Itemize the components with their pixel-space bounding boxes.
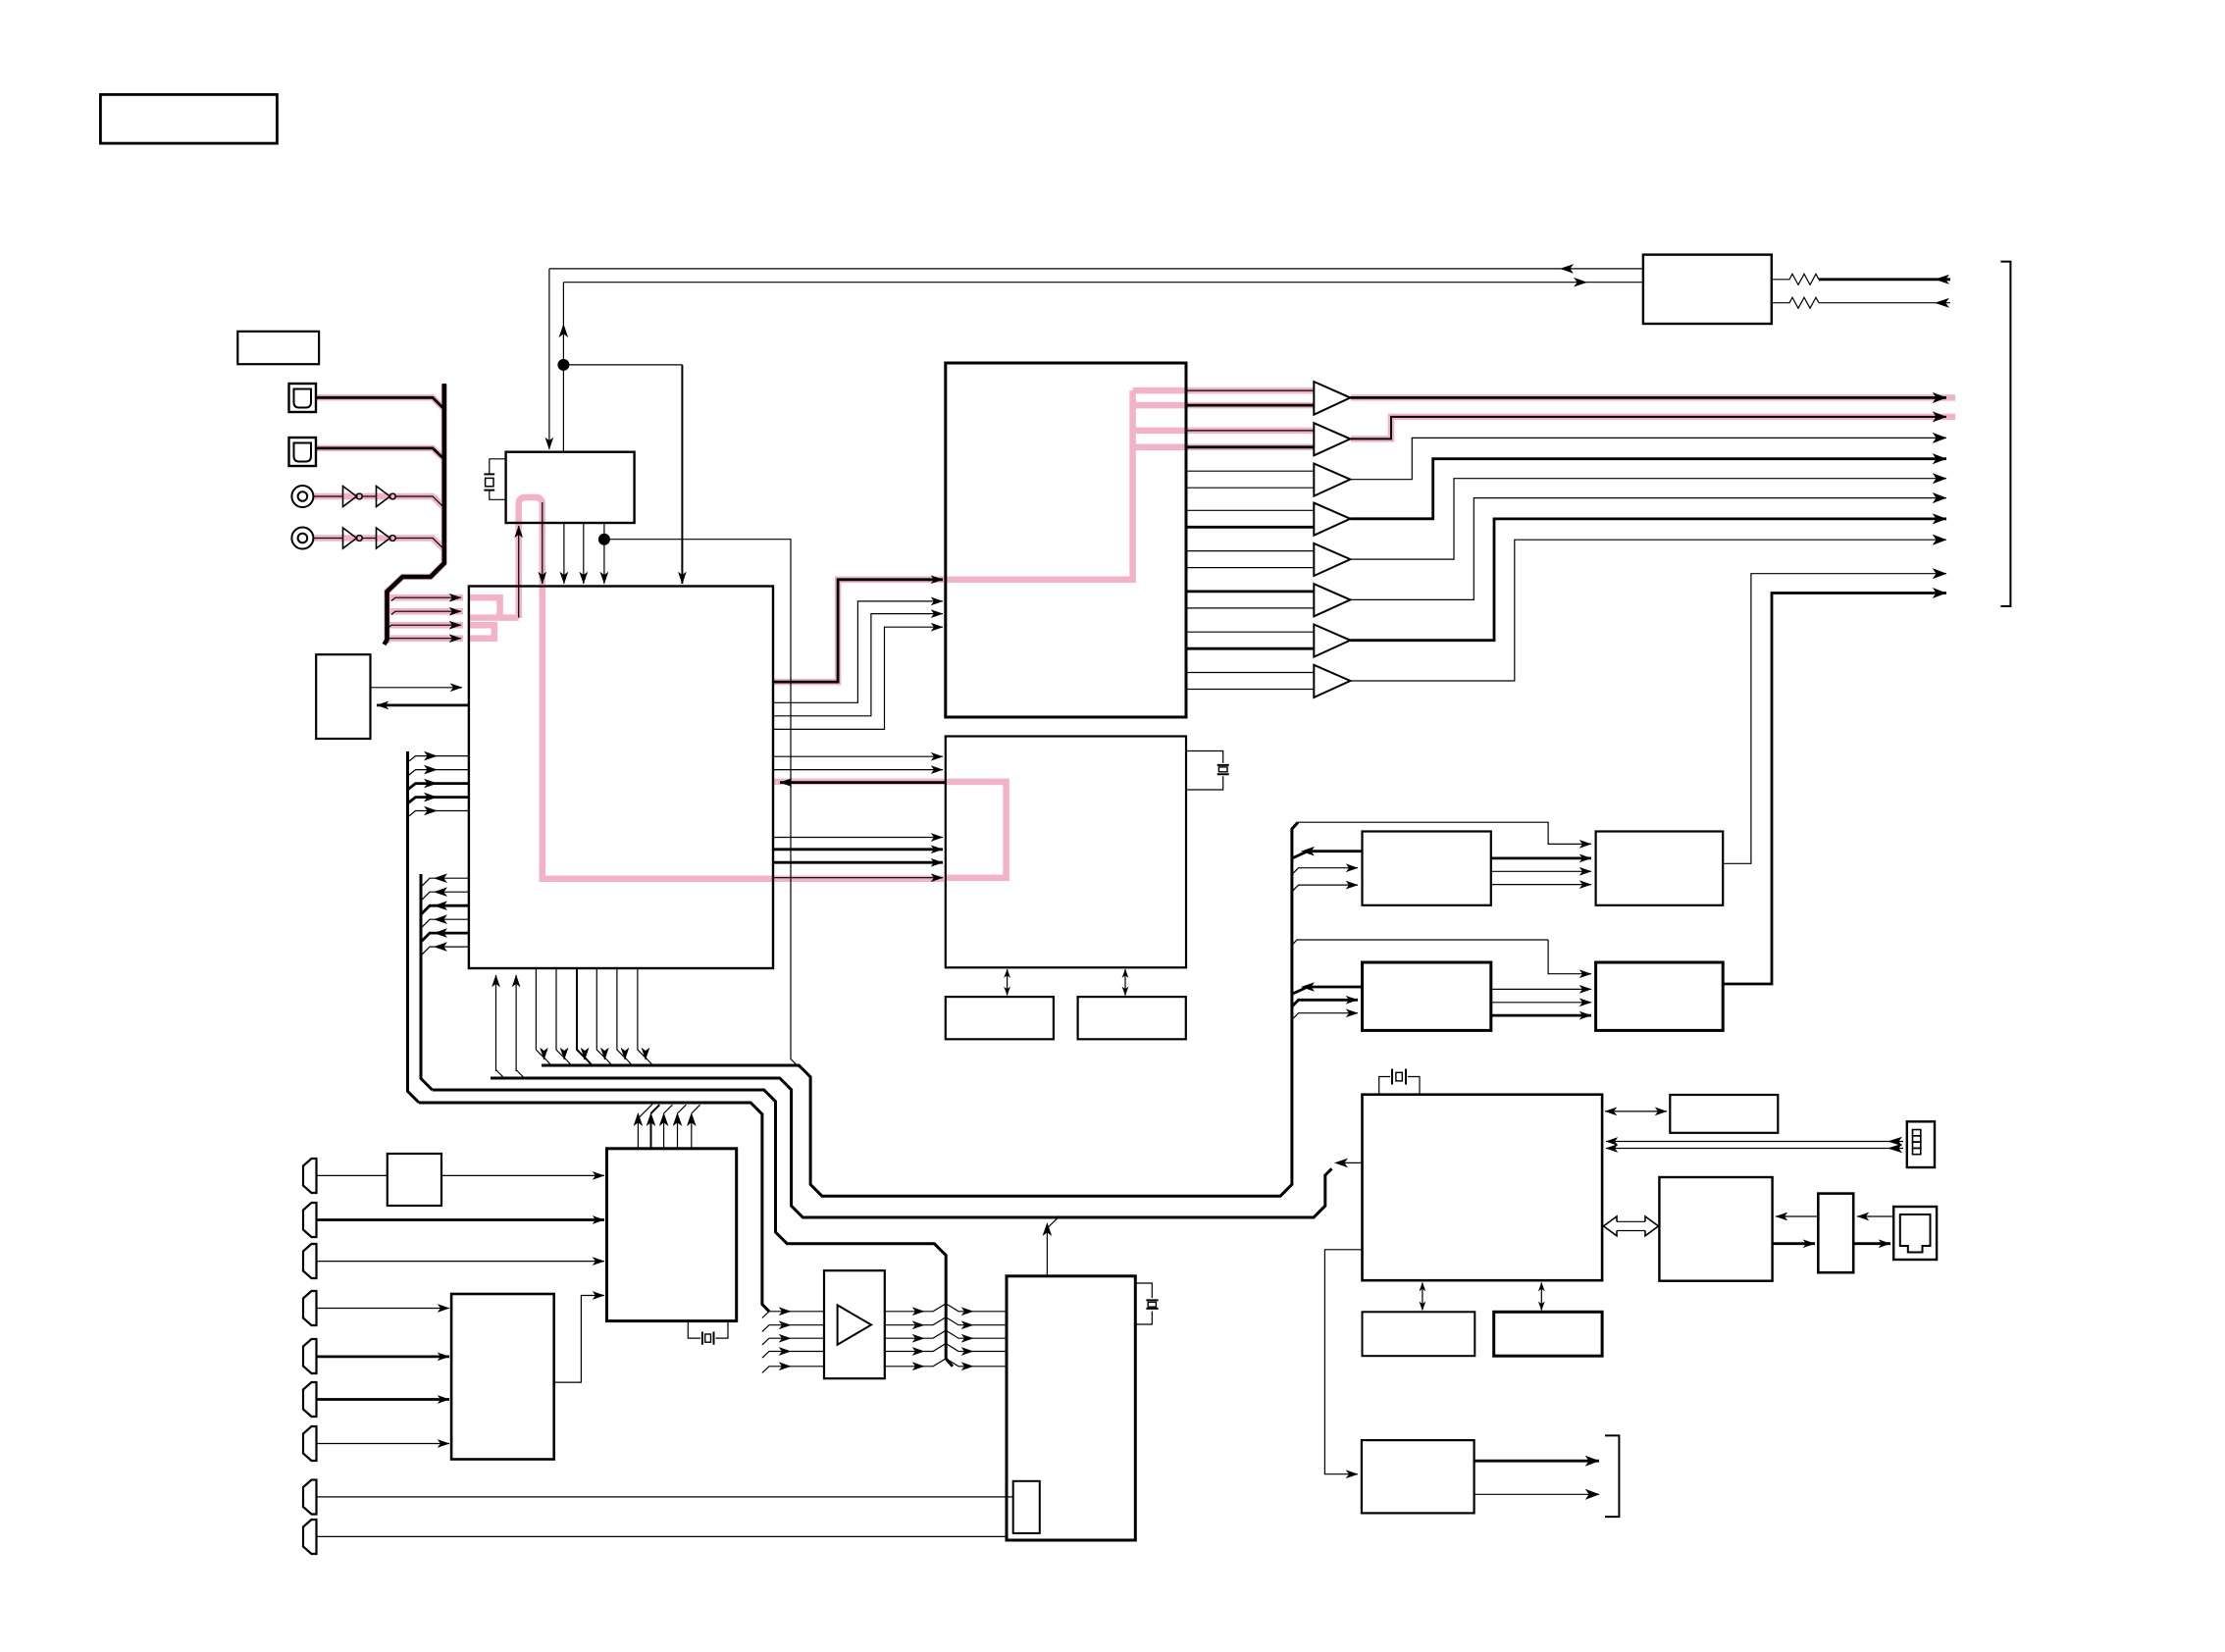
- wire P5 to encoder block (thick): [317, 1356, 450, 1359]
- wire PLL pin up-arrow (left leg of clock loop): [518, 526, 520, 618]
- resistor R2: [1772, 297, 1819, 308]
- connector pill P4: [303, 1291, 317, 1325]
- bracket for power outputs: [1605, 1435, 1619, 1517]
- main IC bottom pin drop 6 onto L1: [638, 969, 646, 1060]
- main IC bottom pin drop 5 onto L1: [617, 969, 625, 1060]
- key block top pin 1 up to bus L4: [638, 1105, 652, 1149]
- wire top feedback line 1 (to top-right box): [549, 268, 1642, 270]
- data bus L2 (to CPU): [491, 1078, 1325, 1217]
- crystal X5 on DAC right edge: [1135, 1283, 1158, 1324]
- wire main IC to U3 line 4: [773, 627, 943, 729]
- output row 9 (from DRAM block C): [1723, 574, 1946, 864]
- wire P1 to remote box: [317, 1174, 388, 1176]
- amp row line 4: [762, 1344, 1007, 1359]
- wire PLL bottom pin 3 to main IC: [563, 523, 565, 584]
- node junction dot A: [557, 359, 569, 371]
- crystal X3 above CPU: [1379, 1069, 1420, 1095]
- connector pill P7: [303, 1426, 317, 1461]
- wire from dot B right and down to data bus L1: [604, 540, 800, 1067]
- encoder block (bottom left): [451, 1294, 554, 1460]
- inverter pair on RCA input 1: [314, 487, 444, 508]
- bidirectional arrow CPU to RAM box G: [1422, 1283, 1423, 1311]
- wire P4 to encoder block: [317, 1308, 450, 1310]
- wire box A out to L1 bus (left arrow, thick): [1292, 852, 1363, 858]
- wire bus A stub 5 into main IC: [408, 811, 469, 818]
- wire main IC to U3 serial data (pink net, arrow): [773, 580, 943, 682]
- wire vertical feedback line 2 down to junction dot: [562, 283, 564, 365]
- DAC inner sub-block: [1013, 1481, 1040, 1533]
- ROM box H (thick): [1494, 1312, 1602, 1356]
- buffer 1 input wires: [1186, 389, 1314, 391]
- output row 1 (thick): [1350, 396, 1946, 399]
- wire P9 long line to DAC block lower left: [317, 1535, 1008, 1537]
- wire CPU to bus L2 (request, arrow toward bus): [1338, 1162, 1363, 1163]
- wire from L1 bus top to box C (address line): [1298, 822, 1591, 844]
- wire P7 to encoder block: [317, 1443, 450, 1445]
- mid-line arrow left on feedback line 1: [1560, 264, 1574, 274]
- amp row line 1: bus stub, through amp, to DAC: [762, 1304, 1007, 1318]
- digital filter / video encoder block U3: [946, 363, 1186, 717]
- wire pink highlight: clock net down inside main IC and out right edge: [543, 586, 944, 879]
- output row 7 (thick, via riser): [1350, 519, 1946, 641]
- output row 10 (thick, from DRAM block D): [1723, 594, 1946, 985]
- wire P3 to key block: [317, 1261, 605, 1263]
- wire CPU to power control box: [1324, 1250, 1362, 1474]
- output buffer 2: [1314, 423, 1350, 455]
- modem box F: [1659, 1177, 1772, 1281]
- output buffer 8: [1314, 665, 1350, 697]
- wire box B out to L1 bus (left arrow, thick): [1292, 987, 1363, 994]
- line transformer box: [1818, 1194, 1853, 1273]
- control bus A (left of main IC, upper group): [408, 751, 420, 1103]
- DRAM controller box B (thick): [1363, 962, 1491, 1030]
- wire main IC out to bus B stub 6: [422, 947, 469, 955]
- wire power box output 1 (thick): [1475, 1460, 1599, 1463]
- wire bus A stub 4 into main IC: [408, 798, 469, 803]
- wire main IC out to bus B stub 1: [422, 878, 469, 887]
- wire bus stub to main IC pin 3: [388, 625, 461, 628]
- wire bus A stub 1 into main IC: [408, 756, 469, 762]
- output row 8 (via riser): [1350, 540, 1946, 681]
- wire main IC out to bus B stub 2: [422, 892, 469, 901]
- crystal X2 on U4 right edge: [1186, 751, 1229, 791]
- wire RJ45 to transformer (leftward): [1857, 1215, 1893, 1217]
- wire pink highlight: riser inside digital filter block: [945, 390, 1133, 580]
- wire transformer to RJ45 (rightward, thick): [1853, 1242, 1890, 1245]
- output buffer 5: [1314, 543, 1350, 576]
- inverter pair on RCA input 2: [314, 528, 444, 549]
- data bus L3 (to audio DAC block): [433, 1090, 953, 1367]
- left arrowhead on R1 line end: [1935, 275, 1949, 284]
- connector J1 optical digital input 1: [289, 384, 317, 412]
- wire CPU to DIP switch line 2: [1606, 1148, 1903, 1150]
- wire PLL output down into main IC (right leg, clock): [542, 502, 543, 584]
- bidirectional arrow U4 to right SRAM: [1124, 969, 1126, 996]
- key block top pin 3 up to bus L4: [664, 1105, 673, 1149]
- mid-line up arrow on that vertical: [559, 324, 569, 337]
- main IC bottom pin drop 4 onto L1: [596, 969, 604, 1060]
- wire pink highlight: comb linking pins 3-4 inside main IC: [470, 625, 494, 639]
- output row 3 (via riser): [1350, 438, 1946, 479]
- wire main IC out to bus B stub 5: [422, 933, 469, 942]
- right output bracket: [2000, 262, 2010, 606]
- PLL / clock generator block U2: [506, 452, 635, 523]
- wire pink highlight: buffer 1 input pair: [1133, 387, 1314, 394]
- wire box A to box C line 3: [1491, 884, 1591, 886]
- bidirectional arrow CPU to ROM box H: [1540, 1283, 1542, 1311]
- resistor R1: [1772, 274, 1819, 284]
- output buffer 4: [1314, 503, 1350, 536]
- wire main IC to U4 clock return (pink net): [773, 877, 943, 879]
- left arrowhead on R2 line end: [1935, 298, 1949, 308]
- output buffer 3: [1314, 464, 1350, 496]
- DRAM controller box A: [1363, 832, 1491, 905]
- wire pink highlight: loop through center DSP block: [774, 782, 1007, 878]
- wire bus A stub 2 into main IC: [408, 770, 469, 776]
- wire P8 long line to DAC inner block: [317, 1496, 1013, 1498]
- wire main IC to U4 line 6 (thick): [773, 861, 943, 864]
- DSP block U4 (center): [946, 737, 1186, 968]
- key block U5 (fluorescent display / key controller): [607, 1149, 737, 1321]
- wire main IC bottom pin 2 (up arrow) joining L2: [516, 975, 524, 1078]
- wire box A to box C line 2: [1491, 870, 1591, 872]
- data bus L4 (keys/display bus to headphone amp row): [419, 1103, 769, 1312]
- buffer 7 input wires: [1186, 631, 1314, 633]
- power control box (bottom right): [1362, 1440, 1475, 1513]
- wire bus stub to main IC pin 4: [386, 639, 461, 642]
- RJ45 jack connector: [1893, 1207, 1937, 1260]
- wire CPU to DIP switch line 1: [1606, 1141, 1903, 1143]
- main IC bottom pin drop 1 onto L1: [536, 969, 543, 1060]
- connector pill P6: [303, 1382, 317, 1417]
- wire box B to box D line 3 (thick): [1491, 1014, 1591, 1017]
- key block top pin 4 up to bus L4: [678, 1105, 687, 1149]
- data bus L1 (from IC bottom pins, to SDRAM stub bus): [542, 822, 1298, 1196]
- wire P6 to encoder block (thick): [317, 1398, 450, 1401]
- wire power box output 2: [1475, 1493, 1599, 1495]
- audio DAC block U6: [1007, 1276, 1135, 1540]
- buffer 5 input wires: [1186, 550, 1314, 552]
- wire optical 2 to bus: [317, 448, 444, 459]
- amp triangle symbol: [838, 1305, 872, 1344]
- RAM box G: [1363, 1312, 1475, 1356]
- connector pill P3: [303, 1244, 317, 1278]
- connector pill P1: [303, 1159, 317, 1193]
- wire from dot A down into PLL top: [562, 365, 564, 452]
- output row 4 (thick, via riser): [1350, 459, 1946, 519]
- buffer 3 input wires: [1186, 470, 1314, 472]
- wire modem F to transformer (rightward, thick): [1773, 1242, 1815, 1245]
- remote sensor box: [388, 1154, 441, 1206]
- wide bidirectional bus arrow CPU to modem box F: [1604, 1216, 1659, 1236]
- wire from L1 bus to box D (address line): [1292, 940, 1591, 974]
- wire box A to box C line 1 (thick): [1491, 857, 1591, 860]
- crystal X4 under key block: [688, 1321, 728, 1345]
- wire bus A stub 3 into main IC: [408, 784, 469, 790]
- output row 5 (via riser): [1350, 479, 1946, 559]
- headphone amp box: [824, 1270, 885, 1378]
- reset box (left of main IC): [316, 654, 370, 739]
- label box (above input connectors): [237, 332, 319, 364]
- wire pink highlight: bus stubs into main IC pins 1-4: [388, 594, 463, 601]
- DIP switch connector: [1907, 1121, 1935, 1167]
- wire PLL bottom pin 4 to main IC: [583, 523, 585, 584]
- wire U4 to main IC (pink loop out, thick): [780, 781, 946, 784]
- wire main IC out to bus B stub 4: [422, 919, 469, 928]
- SRAM box under U4 (right): [1078, 997, 1186, 1039]
- amp row line 3: [762, 1330, 1007, 1345]
- wire optical 1 to bus: [317, 397, 444, 409]
- wire L1 bus stub into box A (line 3): [1292, 885, 1358, 892]
- wire box B to box D line 2: [1491, 1002, 1591, 1004]
- wire P2 to key block (thick): [317, 1218, 605, 1221]
- wire pink highlight: optical input 2 to bus: [317, 448, 444, 459]
- output buffer 1: [1314, 382, 1350, 415]
- bidirectional arrow U4 to left SRAM: [1007, 969, 1009, 996]
- wire L1 bus stub into box B (thick): [1292, 1000, 1358, 1007]
- wire main IC out to bus B stub 3: [422, 905, 469, 914]
- wire main IC bottom pin (up arrow) joining L2 at left: [496, 975, 505, 1078]
- wire pink highlight: serial audio from main IC to digital filter block: [774, 580, 944, 682]
- buffer 8 input wires: [1186, 672, 1314, 674]
- buffer 6 input wires: [1186, 591, 1314, 594]
- top-right interface box: [1643, 255, 1772, 324]
- buffer 4 input wires: [1186, 509, 1314, 511]
- key block top pin 5 up to bus L4: [692, 1105, 700, 1149]
- buffer 2 input wires: [1186, 430, 1314, 432]
- main IC bottom pin drop 3 onto L1 (thick): [577, 969, 585, 1060]
- output buffer 6: [1314, 584, 1350, 616]
- connector J3 coaxial RCA input 1: [291, 486, 313, 507]
- wire pink highlight: output row 2 to right edge: [1351, 417, 1955, 439]
- wire reset box to main IC: [371, 687, 463, 689]
- crystal X1 on PLL left: [484, 459, 505, 500]
- wire main IC to reset box (thick, leftward): [377, 704, 469, 707]
- wire pink highlight: optical input 1 to bus: [317, 397, 444, 409]
- wire pink highlight: input selector bus: [388, 385, 444, 644]
- connector pill P2: [303, 1203, 317, 1237]
- wire main IC to U4 line 5 (thick): [773, 848, 943, 851]
- wire remote box to key block: [441, 1174, 604, 1176]
- control bus B (left of main IC, lower group): [421, 874, 433, 1090]
- CPU block U7: [1363, 1095, 1603, 1281]
- wire box B to box D line 1: [1491, 988, 1591, 990]
- wire pink highlight: output row 1 to right edge: [1351, 394, 1955, 401]
- wire L2 top chamfer arrow to CPU request line: [1325, 1168, 1332, 1175]
- wire main IC to U4 line 4: [773, 837, 943, 839]
- amp row line 2: [762, 1317, 1007, 1332]
- wire main IC to U4 line 1: [773, 755, 943, 757]
- connector pill P9: [303, 1520, 317, 1554]
- wire transformer to modem F (leftward): [1776, 1215, 1818, 1217]
- EEPROM box E: [1670, 1095, 1778, 1133]
- main IC bottom pin drop 2 onto L1: [556, 969, 564, 1060]
- wire encoder block output up into key block: [554, 1296, 604, 1383]
- DRAM box C: [1596, 832, 1724, 905]
- main IC U1 digital signal processor: [469, 587, 773, 969]
- output buffer 7: [1314, 625, 1350, 657]
- wire vertical from feedback line 1 down into PLL top: [548, 269, 550, 449]
- SRAM box under U4 (left): [946, 997, 1054, 1039]
- wire PLL bottom pin 5 through dot B to main IC: [603, 523, 605, 584]
- wire pink highlight: clock net from main IC up into PLL block (U-loop): [519, 497, 543, 618]
- wire bus stub to main IC pin 2: [391, 611, 461, 614]
- wire bus stub to main IC pin 1: [391, 597, 461, 600]
- amp row line 5: [762, 1359, 1007, 1373]
- wire main IC to U3 line 3: [773, 614, 943, 716]
- output row 2 (via riser): [1350, 417, 1946, 439]
- wire R1 to antenna arrow (thick): [1819, 278, 1950, 281]
- connector pill P8: [303, 1480, 317, 1515]
- DAC top pin up to bus L2: [1047, 1216, 1060, 1276]
- wire L1 bus stub into box A (line 2): [1292, 868, 1358, 875]
- connector J2 optical digital input 2: [289, 438, 317, 466]
- key block top pin 2 up to bus L4: [651, 1105, 660, 1149]
- input selector bus (thick): [385, 384, 444, 645]
- wire pink highlight: comb linking pins 1-2 inside main IC: [470, 597, 519, 617]
- node junction dot B: [598, 534, 610, 545]
- wire pink highlight: buffer 2 input pair: [1133, 428, 1314, 435]
- wire R2 to arrow end: [1819, 302, 1950, 304]
- wire top feedback line 2 (to top-right box): [563, 282, 1642, 284]
- bidirectional arrow CPU to EEPROM box E: [1605, 1110, 1667, 1112]
- title box (top left): [100, 94, 277, 143]
- output row 6 (via riser): [1350, 498, 1946, 600]
- mid-line arrow right on feedback line 2: [1574, 278, 1587, 287]
- wire L1 bus stub into box B (line 3): [1292, 1013, 1358, 1020]
- wire pink highlight: analog RCA input 2 to bus: [314, 539, 444, 550]
- wire pink highlight: analog RCA input 1 to bus: [314, 496, 444, 508]
- wire main IC to U3 line 2: [773, 601, 943, 702]
- connector pill P5: [303, 1339, 317, 1373]
- connector J4 coaxial RCA input 2: [291, 528, 313, 549]
- wire main IC to U4 line 2: [773, 769, 943, 771]
- DRAM box D (thick): [1596, 962, 1724, 1030]
- wire from dot A right then down into main IC top (system clock): [563, 364, 682, 366]
